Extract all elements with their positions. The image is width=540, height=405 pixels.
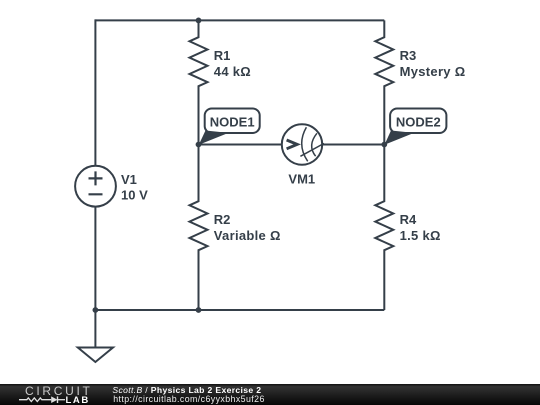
svg-text:LAB: LAB bbox=[66, 395, 90, 405]
svg-text:R2: R2 bbox=[214, 212, 231, 227]
resistor R2 bbox=[190, 145, 208, 311]
voltage source V1 bbox=[75, 166, 116, 207]
wire middle rail right (VM1 to NODE2) bbox=[322, 144, 384, 146]
node NODE2 callout bbox=[385, 109, 447, 145]
wire left branch lower bbox=[94, 207, 96, 311]
wire bottom rail bbox=[94, 309, 384, 311]
wire ground stem bbox=[94, 310, 96, 348]
junction dot bottom of R2 bbox=[196, 307, 202, 313]
url line bbox=[113, 394, 265, 404]
svg-text:1.5 kΩ: 1.5 kΩ bbox=[400, 228, 441, 243]
credit line bbox=[112, 385, 261, 395]
junction dot ground bbox=[93, 307, 99, 313]
svg-text:V1: V1 bbox=[121, 172, 137, 187]
svg-text:R1: R1 bbox=[214, 48, 231, 63]
svg-text:Mystery Ω: Mystery Ω bbox=[400, 64, 466, 79]
junction dot NODE2 bbox=[381, 142, 387, 148]
svg-text:Variable Ω: Variable Ω bbox=[214, 228, 281, 243]
voltmeter VM1 bbox=[282, 124, 324, 164]
CircuitLab logo row: wire, resistor, diode, LAB bbox=[15, 394, 105, 405]
node NODE1 callout bbox=[199, 109, 260, 145]
wire top rail bbox=[95, 19, 384, 21]
svg-text:10 V: 10 V bbox=[121, 188, 148, 203]
svg-text:R3: R3 bbox=[400, 48, 417, 63]
resistor R4 bbox=[375, 145, 393, 311]
wire left branch upper bbox=[94, 19, 96, 166]
svg-text:R4: R4 bbox=[400, 212, 417, 227]
footer bar bbox=[0, 384, 540, 405]
svg-text:NODE1: NODE1 bbox=[210, 115, 255, 130]
svg-text:VM1: VM1 bbox=[288, 172, 315, 187]
resistor R3 bbox=[375, 20, 393, 144]
wire middle rail left (NODE1 to VM1) bbox=[199, 144, 283, 146]
junction dot top of R1 bbox=[196, 18, 202, 24]
ground bbox=[78, 348, 113, 363]
resistor R1 bbox=[190, 20, 208, 144]
svg-text:NODE2: NODE2 bbox=[396, 115, 441, 130]
CircuitLab logo wordmark CIRCUIT bbox=[25, 384, 93, 398]
svg-text:44 kΩ: 44 kΩ bbox=[214, 64, 251, 79]
junction dot NODE1 bbox=[196, 142, 202, 148]
